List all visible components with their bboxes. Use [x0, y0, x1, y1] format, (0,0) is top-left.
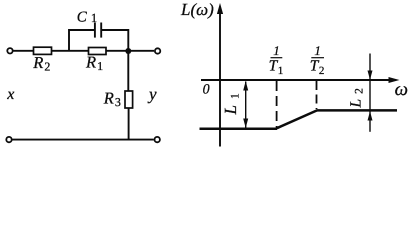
- svg-text:ω: ω: [395, 79, 408, 100]
- svg-text:1: 1: [273, 43, 280, 58]
- svg-text:R3: R3: [103, 89, 121, 110]
- svg-text:L2: L2: [348, 88, 366, 109]
- svg-text:x: x: [6, 86, 14, 103]
- svg-text:R1: R1: [85, 53, 103, 74]
- svg-text:L1: L1: [221, 93, 242, 115]
- svg-text:T1: T1: [269, 58, 284, 77]
- svg-text:T2: T2: [310, 58, 325, 77]
- svg-text:y: y: [147, 84, 157, 103]
- svg-text:R2: R2: [32, 53, 50, 74]
- svg-text:C1: C1: [77, 9, 97, 25]
- svg-text:0: 0: [203, 83, 210, 98]
- svg-text:L(ω): L(ω): [180, 0, 214, 19]
- svg-text:1: 1: [314, 43, 321, 58]
